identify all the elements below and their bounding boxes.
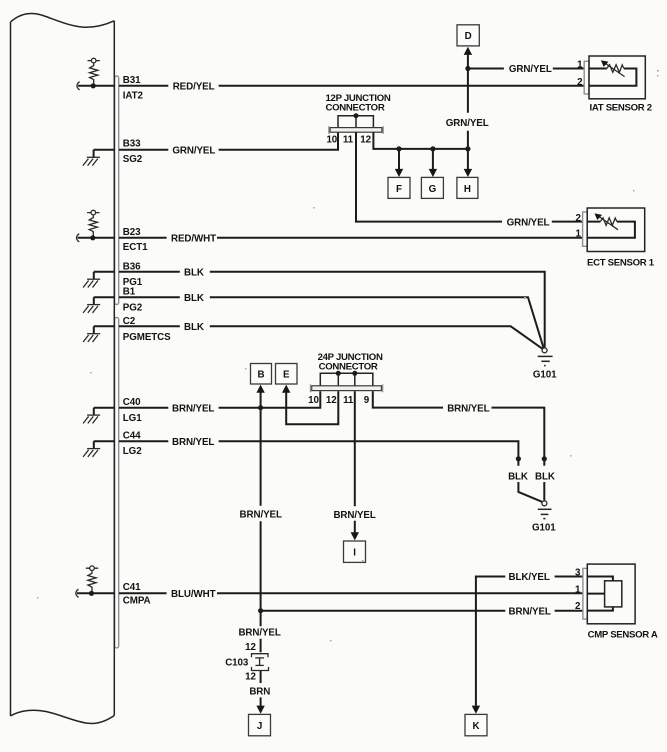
wire BLK/YEL from CMP sensor A pin 3 to connector K xyxy=(476,577,583,706)
svg-text:G: G xyxy=(429,184,437,195)
wire B1 BLK to ground G101 xyxy=(119,297,544,348)
svg-text:I: I xyxy=(353,548,356,559)
svg-text:12: 12 xyxy=(245,642,256,653)
svg-text:1: 1 xyxy=(575,584,581,595)
svg-text:BRN/YEL: BRN/YEL xyxy=(172,437,214,448)
wire arrow to connector F xyxy=(395,149,403,177)
wire B23 internal segment xyxy=(78,237,115,239)
wire C44 BRN/YEL to splice (becomes BLK) xyxy=(119,441,542,502)
svg-text:11: 11 xyxy=(343,135,354,146)
svg-text:D: D xyxy=(465,31,472,42)
svg-text:12: 12 xyxy=(360,135,371,146)
junction node atop 24P connector (pin 12 edge) xyxy=(336,371,341,376)
svg-text:IAT SENSOR 2: IAT SENSOR 2 xyxy=(590,103,652,114)
wire continuation arc (IAT2 row) xyxy=(77,82,80,90)
svg-text:G101: G101 xyxy=(532,522,556,533)
wire arrow up into connector E (from 24P pin 12) xyxy=(282,385,338,425)
svg-text:ECT1: ECT1 xyxy=(123,242,148,253)
wire B31 internal segment xyxy=(78,85,114,87)
internal ground (LG1 circuit) xyxy=(83,408,100,424)
svg-text:B36: B36 xyxy=(123,261,141,272)
connector box J xyxy=(249,714,271,735)
svg-text:BLK: BLK xyxy=(508,472,528,483)
svg-text:C2: C2 xyxy=(123,316,136,327)
svg-text:BRN/YEL: BRN/YEL xyxy=(509,606,551,617)
junction node (H branch) xyxy=(465,146,470,151)
svg-text:BLK: BLK xyxy=(184,268,204,279)
svg-text:J: J xyxy=(257,721,262,732)
svg-text:PGMETCS: PGMETCS xyxy=(123,332,171,343)
internal ground (SG2 circuit) xyxy=(83,150,100,166)
ECM/PCM body outline (torn-edge box) xyxy=(11,14,115,724)
24P junction connector body xyxy=(311,373,383,392)
svg-text:10: 10 xyxy=(326,135,337,146)
svg-text:GRN/YEL: GRN/YEL xyxy=(446,118,489,129)
wire arrow to connector H xyxy=(464,149,472,177)
connector box B xyxy=(251,364,272,385)
svg-text:ECT SENSOR 1: ECT SENSOR 1 xyxy=(587,257,655,268)
junction node (F branch) xyxy=(396,146,401,151)
ECT sensor 1 body xyxy=(587,208,645,252)
svg-text:RED/WHT: RED/WHT xyxy=(171,234,216,245)
svg-text:11: 11 xyxy=(343,395,354,406)
wire C2 BLK to ground G101 xyxy=(119,326,543,349)
svg-text:1: 1 xyxy=(577,60,583,71)
svg-text:GRN/YEL: GRN/YEL xyxy=(509,64,552,75)
wire B1 internal segment xyxy=(94,296,115,298)
wire BRN/YEL from 24P pin 9 to splice xyxy=(373,391,545,500)
svg-text:10: 10 xyxy=(308,395,319,406)
svg-text:BRN/YEL: BRN/YEL xyxy=(238,628,280,639)
ground symbol G101 (sensor side) xyxy=(538,501,552,519)
in-line connector C103 xyxy=(252,654,269,671)
wire C40 internal segment xyxy=(94,407,115,409)
wire arrow into connector K xyxy=(472,706,480,714)
internal pull-up resistor (IAT2 circuit) xyxy=(88,58,100,84)
junction node on LG1 wire (B branch) xyxy=(258,405,263,410)
wire C41 internal segment xyxy=(77,592,114,594)
svg-text:BRN/YEL: BRN/YEL xyxy=(447,403,489,414)
connector box I xyxy=(344,541,366,562)
svg-text:BLK: BLK xyxy=(535,472,555,483)
scan speckles (decorative) xyxy=(37,70,659,642)
svg-text:IAT2: IAT2 xyxy=(123,91,144,102)
internal pull-up resistor (CMPA circuit) xyxy=(86,566,98,592)
internal ground (LG2 circuit) xyxy=(83,441,100,457)
svg-text:GRN/YEL: GRN/YEL xyxy=(507,217,550,228)
svg-text:BRN/YEL: BRN/YEL xyxy=(240,509,282,520)
junction node on ECT1 wire xyxy=(90,235,95,240)
svg-text:C41: C41 xyxy=(123,582,141,593)
wire 12P pin 12 to F/G/H distribution xyxy=(373,132,468,149)
svg-text:CMP SENSOR A: CMP SENSOR A xyxy=(588,629,658,640)
svg-text:BRN: BRN xyxy=(249,686,270,697)
junction node (GRN/YEL tap to IAT pin 1) xyxy=(465,66,470,71)
junction node on B-branch at CMP pin 2 wire xyxy=(258,608,263,613)
wire C41 BLU/WHT to CMP sensor A pin 1 xyxy=(119,592,583,594)
svg-text:B1: B1 xyxy=(123,287,136,298)
CMP sensor A connector tab xyxy=(583,568,587,619)
wire B23 RED/WHT to ECT sensor 1 pin 1 xyxy=(119,237,583,239)
junction node (G branch) xyxy=(430,146,435,151)
wire BRN/YEL down to C103 xyxy=(260,611,262,653)
junction node atop 12P connector xyxy=(354,113,359,118)
svg-text:H: H xyxy=(464,184,471,195)
connector box F xyxy=(388,177,410,198)
svg-text:SG2: SG2 xyxy=(123,154,143,165)
wire B33 internal segment xyxy=(94,149,115,151)
svg-text:1: 1 xyxy=(575,229,581,240)
svg-text:CONNECTOR: CONNECTOR xyxy=(319,361,378,372)
connector box G xyxy=(421,177,443,198)
internal ground (PG2 circuit) xyxy=(83,297,100,313)
svg-text:LG2: LG2 xyxy=(123,446,142,457)
svg-text:PG2: PG2 xyxy=(123,303,143,314)
wire BRN/YEL from B-branch to CMP sensor A pin 2 xyxy=(261,610,583,612)
svg-text:BLU/WHT: BLU/WHT xyxy=(171,589,216,600)
wire GRN/YEL from 12P pin 11 to ECT sensor 1 pin 2 xyxy=(356,132,583,221)
wire GRN/YEL vertical (D to 12P distribution) xyxy=(467,69,469,149)
svg-text:B31: B31 xyxy=(123,75,141,86)
connector box D xyxy=(457,25,479,46)
wire GRN/YEL to IAT sensor 2 pin 1 xyxy=(468,68,584,70)
svg-text:CMPA: CMPA xyxy=(123,596,151,607)
svg-text:BLK: BLK xyxy=(184,293,204,304)
svg-text:3: 3 xyxy=(575,568,581,579)
connector box K xyxy=(465,714,487,735)
svg-text:2: 2 xyxy=(577,77,583,88)
splice node on LG2 branch xyxy=(516,456,521,461)
splice node on pin 9 branch xyxy=(542,456,547,461)
wire continuation arc (CMPA row) xyxy=(76,589,79,597)
wire C40 BRN/YEL to 24P junction connector pin 10 xyxy=(119,391,320,408)
svg-text:BLK/YEL: BLK/YEL xyxy=(509,572,550,583)
internal ground (PG1 circuit) xyxy=(83,272,100,288)
junction node atop 24P connector (pin 11 edge) xyxy=(352,371,357,376)
wire BRN from C103 to connector J xyxy=(260,671,262,707)
wire continuation arc (ECT1 row) xyxy=(77,234,80,242)
CMP sensor A body xyxy=(587,564,635,624)
svg-text:B33: B33 xyxy=(123,138,141,149)
internal pull-up resistor (ECT1 circuit) xyxy=(87,210,99,236)
wire B36 internal segment xyxy=(94,271,115,273)
svg-text:2: 2 xyxy=(575,213,581,224)
svg-text:C40: C40 xyxy=(123,397,141,408)
wire B36 BLK to ground G101 xyxy=(119,272,545,348)
svg-text:LG1: LG1 xyxy=(123,413,142,424)
wire arrow up into connector B (tap from LG1) xyxy=(256,385,264,611)
internal ground (PGMETCS circuit) xyxy=(83,326,100,342)
svg-text:G101: G101 xyxy=(533,369,557,380)
svg-text:F: F xyxy=(396,184,402,195)
IAT sensor 2 connector tab xyxy=(584,61,589,94)
svg-text:GRN/YEL: GRN/YEL xyxy=(172,145,215,156)
connector box E xyxy=(276,364,298,385)
connector box H xyxy=(457,177,478,198)
ECM connector B pin bracket xyxy=(115,76,119,305)
IAT sensor 2 body xyxy=(589,56,645,99)
wire 24P pin 11 down to connector I xyxy=(351,391,359,540)
svg-text:12: 12 xyxy=(245,671,256,682)
wire B33 GRN/YEL to 12P junction connector pin 10 xyxy=(119,132,338,150)
svg-text:2: 2 xyxy=(575,601,581,612)
svg-text:RED/YEL: RED/YEL xyxy=(173,82,215,93)
svg-text:B23: B23 xyxy=(123,227,141,238)
wire arrow to connector G xyxy=(429,149,437,177)
svg-text:B: B xyxy=(258,370,265,381)
svg-text:K: K xyxy=(473,721,480,732)
wire C2 internal segment xyxy=(94,325,115,327)
ECM connector C pin bracket xyxy=(115,317,119,648)
svg-text:BRN/YEL: BRN/YEL xyxy=(172,403,214,414)
junction node on CMPA wire xyxy=(89,591,94,596)
ECT sensor 1 connector tab xyxy=(583,212,588,246)
wire C44 internal segment xyxy=(94,440,115,442)
wire arrow into connector J xyxy=(256,706,264,714)
12P junction connector body xyxy=(329,116,383,134)
svg-text:C103: C103 xyxy=(225,658,249,669)
svg-text:E: E xyxy=(283,370,290,381)
junction node on IAT2 wire xyxy=(91,83,96,88)
svg-text:9: 9 xyxy=(364,395,370,406)
svg-text:12: 12 xyxy=(326,395,337,406)
svg-text:C44: C44 xyxy=(123,430,141,441)
wire B31 RED/YEL to IAT sensor 2 pin 2 xyxy=(119,85,584,87)
svg-text:BRN/YEL: BRN/YEL xyxy=(333,510,375,521)
svg-text:CONNECTOR: CONNECTOR xyxy=(326,103,385,114)
ground symbol G101 (ECM side) xyxy=(538,348,553,366)
wire arrow up into connector D xyxy=(464,47,472,69)
svg-text:BLK: BLK xyxy=(184,322,204,333)
